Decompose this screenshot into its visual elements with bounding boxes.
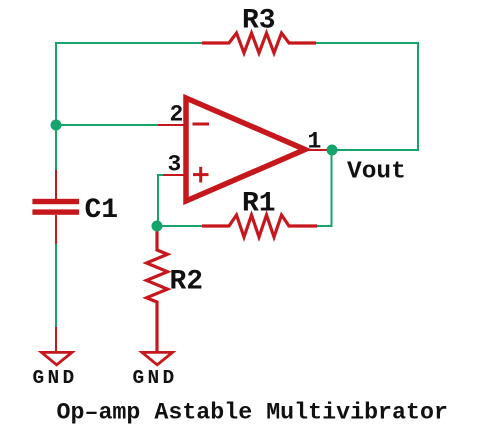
wire pin 3 corner down to node B xyxy=(158,175,163,226)
svg-text:2: 2 xyxy=(170,102,184,128)
wire C1 bottom to ground lead xyxy=(55,244,57,327)
wire left vertical from top to C1 xyxy=(55,42,57,170)
wire top net: R3 left segment xyxy=(56,42,202,44)
wire top net: R3 right segment down to output node xyxy=(316,43,418,150)
svg-text:C1: C1 xyxy=(85,195,119,226)
op-amp U1 xyxy=(186,98,305,201)
pin 2 stub xyxy=(158,124,186,126)
node A junction xyxy=(51,120,62,131)
svg-text:R1: R1 xyxy=(242,189,276,220)
wire node A to op-amp pin 2 xyxy=(56,124,158,126)
svg-text:GND: GND xyxy=(33,367,78,389)
svg-text:3: 3 xyxy=(168,152,182,178)
resistor R2 xyxy=(147,226,168,352)
output node junction xyxy=(327,145,338,156)
ground symbol left xyxy=(42,352,73,364)
wire node B to R1 left xyxy=(157,225,202,227)
ground lead left xyxy=(55,327,57,352)
pin 1 stub xyxy=(303,149,332,151)
node B junction xyxy=(152,221,163,232)
pin 3 stub xyxy=(163,174,186,176)
wire R1 right up to output node xyxy=(317,150,332,226)
capacitor C1 xyxy=(32,170,79,244)
ground symbol middle xyxy=(142,352,173,364)
svg-text:Op–amp Astable Multivibrator: Op–amp Astable Multivibrator xyxy=(57,400,448,426)
svg-text:GND: GND xyxy=(133,367,178,389)
svg-text:Vout: Vout xyxy=(347,159,406,186)
svg-text:1: 1 xyxy=(308,129,322,155)
resistor R1 xyxy=(202,215,317,237)
svg-text:R3: R3 xyxy=(242,6,276,37)
svg-text:R2: R2 xyxy=(170,267,204,298)
resistor R3 xyxy=(202,33,316,53)
